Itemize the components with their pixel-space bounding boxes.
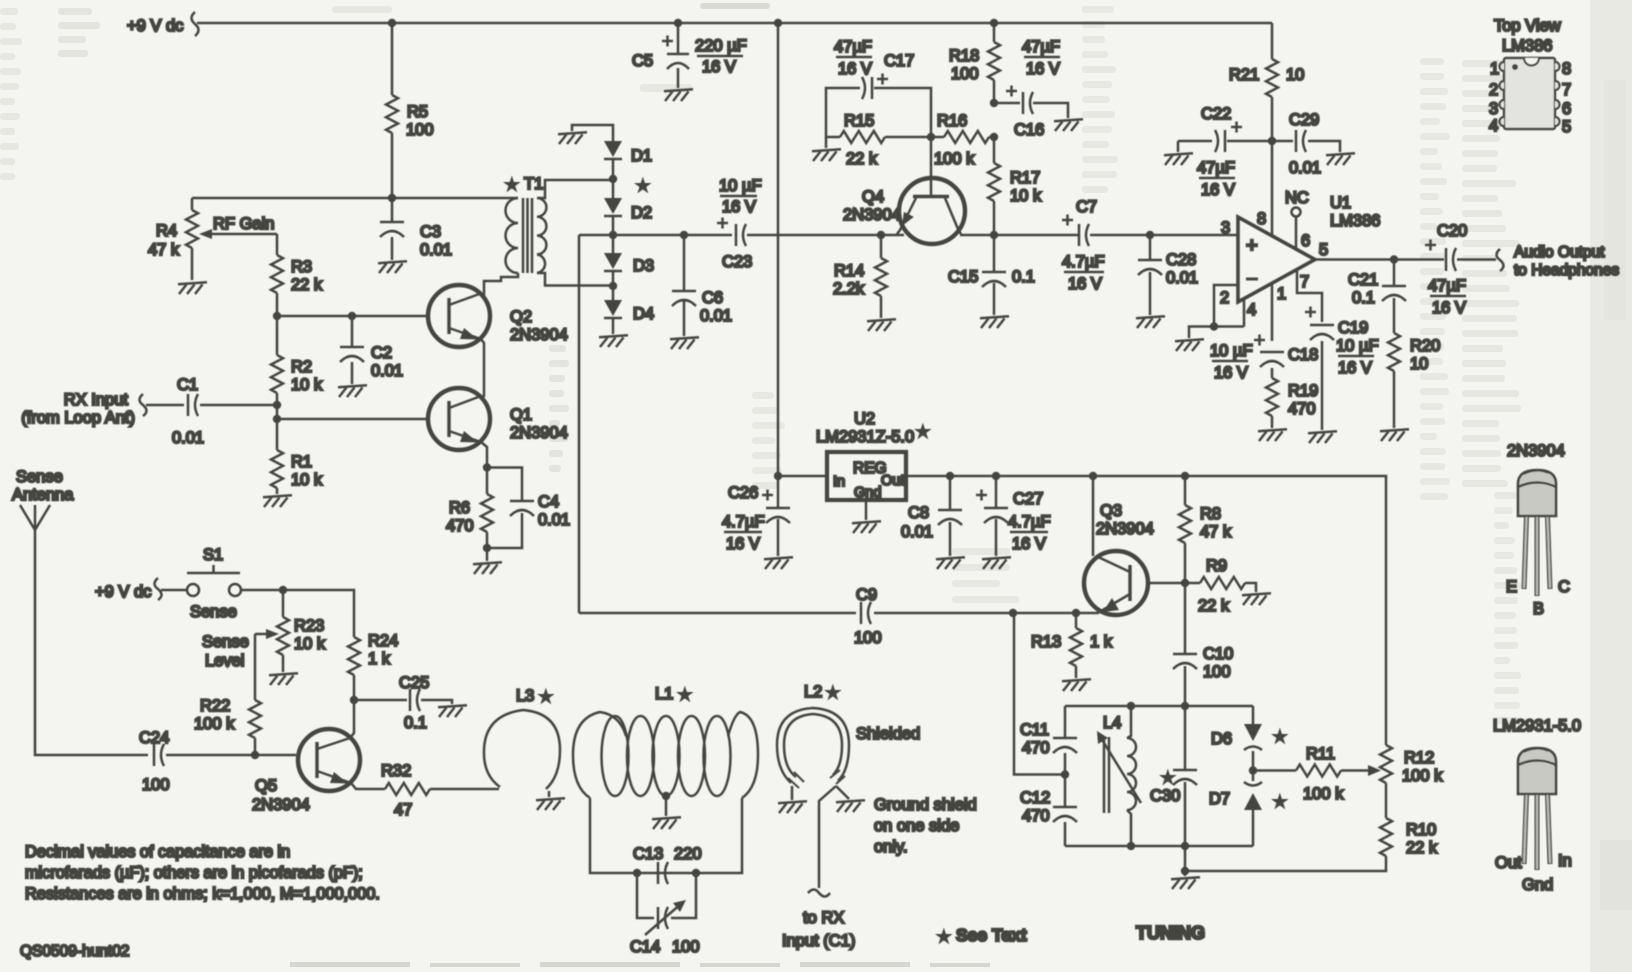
svg-text:0.01: 0.01 <box>538 511 570 529</box>
svg-text:D4: D4 <box>633 305 654 323</box>
ground under regulator <box>852 500 881 533</box>
svg-text:1: 1 <box>1277 285 1286 303</box>
capacitor C18 10uF 16V <box>1210 335 1318 383</box>
pin 2 and 4 ground loop <box>1189 285 1256 338</box>
diode D3 <box>604 235 654 286</box>
bottom scan band <box>290 962 990 967</box>
svg-text:C19: C19 <box>1338 319 1368 337</box>
svg-text:C27: C27 <box>1013 490 1043 508</box>
wire L1 ends down to C13 <box>590 798 742 873</box>
svg-text:only.: only. <box>874 838 908 856</box>
svg-text:D2: D2 <box>631 204 652 222</box>
pin 1 wire <box>1271 284 1274 341</box>
svg-text:100: 100 <box>1203 663 1231 681</box>
svg-text:C: C <box>1558 578 1570 596</box>
svg-text:1 k: 1 k <box>1090 633 1113 651</box>
svg-text:R11: R11 <box>1306 745 1335 763</box>
svg-text:R32: R32 <box>381 762 411 780</box>
svg-text:2N3904: 2N3904 <box>843 206 901 224</box>
svg-text:16 V: 16 V <box>1338 359 1372 377</box>
resistor R22 100k <box>194 697 261 755</box>
svg-text:47µF: 47µF <box>1022 38 1060 56</box>
svg-text:0.01: 0.01 <box>700 307 732 325</box>
wire Q2 base node line <box>277 315 428 318</box>
ground under L3 <box>536 791 565 810</box>
capacitor C4 0.01 <box>487 468 570 549</box>
svg-text:8: 8 <box>1257 210 1266 228</box>
ground tuning network <box>1171 877 1200 889</box>
svg-text:3: 3 <box>1221 219 1230 237</box>
svg-text:16 V: 16 V <box>722 198 756 216</box>
svg-text:47µF: 47µF <box>834 38 872 56</box>
svg-text:16 V: 16 V <box>1026 60 1060 78</box>
svg-text:R4: R4 <box>156 222 177 240</box>
svg-text:C1: C1 <box>177 376 198 394</box>
resistor R6 470 <box>446 468 493 549</box>
ground under C6 <box>670 337 699 349</box>
svg-text:C29: C29 <box>1289 111 1319 129</box>
svg-text:C7: C7 <box>1076 198 1097 216</box>
node junction R18 C16 <box>990 99 998 107</box>
svg-text:★: ★ <box>1162 770 1174 785</box>
svg-text:R9: R9 <box>1206 557 1227 575</box>
node junction R13 tap <box>1072 609 1080 617</box>
note see text <box>938 925 1027 945</box>
capacitor C16 47uF 16V <box>994 38 1068 139</box>
svg-text:4.7µF: 4.7µF <box>1008 513 1051 531</box>
resistor R2 10k <box>271 316 323 405</box>
svg-text:16 V: 16 V <box>702 58 736 76</box>
svg-text:100 k: 100 k <box>194 715 235 733</box>
transformer T1 <box>505 175 546 273</box>
node junction S1 R23 <box>279 586 287 594</box>
svg-text:C14: C14 <box>630 938 660 956</box>
svg-text:Antenna: Antenna <box>12 486 74 504</box>
svg-text:C22: C22 <box>1201 105 1231 123</box>
ground under C26 <box>764 557 793 569</box>
svg-text:C4: C4 <box>538 493 559 511</box>
node junction rail R8 <box>1181 472 1189 480</box>
node junction R22 C24 Q5 base <box>251 751 259 759</box>
svg-text:7: 7 <box>1300 273 1309 291</box>
node junction C2 tap <box>348 312 356 320</box>
wire tank bottom line <box>1065 845 1253 848</box>
capacitor C22 47uF 16V <box>1178 105 1272 199</box>
svg-text:Ground shield: Ground shield <box>874 796 977 814</box>
capacitor C21 0.1 <box>1348 260 1406 334</box>
capacitor C1 0.01 <box>146 376 277 447</box>
svg-text:★: ★ <box>827 685 839 700</box>
node junction R24 C25 Q5 collector <box>350 696 358 704</box>
svg-text:4: 4 <box>1247 301 1256 319</box>
transistor Q1 2N3904 <box>428 388 568 450</box>
svg-text:C12: C12 <box>1020 789 1050 807</box>
svg-text:LM2931Z-5.0: LM2931Z-5.0 <box>816 428 914 446</box>
svg-text:22 k: 22 k <box>291 276 323 294</box>
svg-text:R15: R15 <box>844 112 874 130</box>
svg-text:0.01: 0.01 <box>1289 159 1321 177</box>
svg-text:10 k: 10 k <box>294 635 326 653</box>
svg-text:220: 220 <box>674 845 702 863</box>
potentiometer R23 10k Sense Level <box>202 590 326 700</box>
resistor R24 1k <box>348 632 398 700</box>
svg-text:470: 470 <box>1022 807 1050 825</box>
svg-text:C9: C9 <box>856 586 877 604</box>
svg-text:Q4: Q4 <box>862 188 884 206</box>
svg-text:Resistances are in ohms; k=1,0: Resistances are in ohms; k=1,000, M=1,00… <box>25 885 380 903</box>
ground under C27 <box>982 557 1011 569</box>
svg-text:R17: R17 <box>1010 169 1040 187</box>
svg-text:C3: C3 <box>420 223 441 241</box>
svg-text:microfarads (µF); others are i: microfarads (µF); others are in picofara… <box>25 864 363 882</box>
node junction C13 left <box>633 869 641 877</box>
ground under R1 <box>263 495 292 507</box>
node junction C1-R2-R1 <box>273 401 281 409</box>
svg-text:R18: R18 <box>949 47 979 65</box>
diode D2 <box>604 179 652 235</box>
svg-text:C25: C25 <box>399 674 429 692</box>
svg-text:2N3904: 2N3904 <box>252 796 310 814</box>
capacitor C15 0.1 <box>948 235 1035 315</box>
svg-text:0.01: 0.01 <box>901 523 933 541</box>
resistor R21 10 <box>1229 23 1304 141</box>
svg-text:Top View: Top View <box>1494 17 1561 35</box>
svg-text:R2: R2 <box>291 358 312 376</box>
wire T1 primary bottom to Q2 collector <box>484 273 518 299</box>
node junction C6 tap <box>680 231 688 239</box>
ground under D4 <box>599 335 628 347</box>
svg-text:470: 470 <box>446 517 474 535</box>
pin 7 wire to C19 <box>1297 270 1322 322</box>
svg-text:0.1: 0.1 <box>1012 268 1035 286</box>
svg-text:47µF: 47µF <box>1428 277 1466 295</box>
svg-text:★: ★ <box>637 178 649 193</box>
regulator U2 LM2931Z-5.0 <box>778 410 929 501</box>
capacitor C26 4.7uF 16V <box>722 476 790 556</box>
capacitor C20 47uF 16V <box>1425 222 1467 317</box>
svg-text:0.1: 0.1 <box>404 714 427 732</box>
transistor Q4 2N3904 <box>843 137 965 244</box>
wire product detector line C9 <box>579 612 1099 615</box>
svg-text:100: 100 <box>142 776 170 794</box>
svg-text:See Text: See Text <box>956 925 1027 945</box>
svg-text:8: 8 <box>1562 60 1571 78</box>
svg-text:10 µF: 10 µF <box>1210 342 1253 360</box>
node junction L4 bottom <box>1127 842 1135 850</box>
node junction C10 C30 <box>1181 702 1189 710</box>
svg-text:6: 6 <box>1301 232 1310 250</box>
node junction R16 R17 <box>990 133 998 141</box>
node junction C28 tap <box>1146 231 1154 239</box>
svg-text:RF Gain: RF Gain <box>213 215 274 233</box>
svg-text:5: 5 <box>1562 118 1571 136</box>
svg-text:10 k: 10 k <box>291 376 323 394</box>
svg-text:B: B <box>1533 600 1544 618</box>
svg-text:Audio Output: Audio Output <box>1514 244 1605 261</box>
wire Q5 emitter to R32 <box>351 783 385 789</box>
svg-text:C23: C23 <box>722 253 752 271</box>
wire regulated 5V rail <box>906 476 1386 745</box>
ground right of R9 <box>1242 593 1271 605</box>
node junction C27 <box>992 472 1000 480</box>
ground under C2 <box>338 385 367 397</box>
svg-text:2.2k: 2.2k <box>833 280 865 298</box>
svg-text:Q3: Q3 <box>1100 502 1122 520</box>
capacitor C10 100 <box>1173 583 1233 706</box>
svg-text:(from Loop Ant): (from Loop Ant) <box>21 409 135 427</box>
svg-text:Level: Level <box>205 652 244 670</box>
ground L2 left end <box>778 786 807 813</box>
wire Q3 base to R8 R9 node <box>1148 582 1185 585</box>
package 2N3904 TO-92 <box>1506 442 1570 618</box>
svg-text:3: 3 <box>1489 100 1498 118</box>
resistor R20 10 <box>1388 333 1440 428</box>
svg-text:C16: C16 <box>1014 121 1044 139</box>
node junction C30 bottom <box>1181 842 1189 850</box>
node junction R3-R2-base <box>273 312 281 320</box>
ground under C28 <box>1136 316 1165 328</box>
svg-text:C5: C5 <box>632 52 653 70</box>
resistor R13 1k <box>1031 613 1113 678</box>
svg-text:R1: R1 <box>291 453 312 471</box>
resistor R18 100 <box>949 23 1000 103</box>
svg-text:to Headphones: to Headphones <box>1514 262 1619 279</box>
node junction R21 C22 C29 pin8 <box>1268 137 1276 145</box>
svg-text:D3: D3 <box>633 257 654 275</box>
svg-text:16 V: 16 V <box>1012 535 1046 553</box>
node S1 +9V label <box>95 578 162 601</box>
svg-text:D6: D6 <box>1211 730 1232 748</box>
svg-text:0.01: 0.01 <box>1166 269 1198 287</box>
diode D6 varactor <box>1211 706 1286 770</box>
potentiometer R4 47k RF Gain <box>148 198 277 280</box>
ground under R6 <box>473 548 502 574</box>
node Audio Output label <box>1497 244 1620 279</box>
svg-text:C15: C15 <box>948 268 978 286</box>
svg-text:470: 470 <box>1288 400 1316 418</box>
svg-text:C28: C28 <box>1166 251 1196 269</box>
svg-text:5: 5 <box>1319 241 1328 259</box>
svg-text:10: 10 <box>1286 66 1304 84</box>
svg-text:R14: R14 <box>834 262 864 280</box>
svg-text:10 µF: 10 µF <box>719 177 762 195</box>
node junction output C21 <box>1390 255 1398 263</box>
ground under C5 <box>664 89 693 101</box>
node junction D6 D7 R11 <box>1249 766 1257 774</box>
svg-text:R22: R22 <box>200 697 230 715</box>
wire tank feed from product detector <box>1014 613 1065 775</box>
resistor R1 10k <box>271 419 323 494</box>
wire Q2 emitter to Q1 collector <box>481 339 484 398</box>
svg-text:Q1: Q1 <box>510 406 532 424</box>
potentiometer R12 100k <box>1380 745 1443 818</box>
node junction rail-C5 <box>674 19 682 27</box>
capacitor C19 10uF 16V <box>1305 307 1379 431</box>
ground R15 C17 left node <box>812 137 841 161</box>
node junction tank feed tap <box>1009 609 1017 617</box>
svg-text:Shielded: Shielded <box>856 725 920 743</box>
svg-text:D1: D1 <box>631 147 652 165</box>
wire +9V top rail <box>197 22 1272 25</box>
resistor R16 100k <box>931 112 994 168</box>
svg-text:U1: U1 <box>1330 194 1351 212</box>
svg-text:RX Input: RX Input <box>64 391 129 409</box>
capacitor C9 100 <box>854 586 882 647</box>
node junction tank ground <box>1181 867 1189 875</box>
svg-text:LM2931-5.0: LM2931-5.0 <box>1493 717 1581 735</box>
capacitor C17 47uF 16V bypass loop <box>826 38 931 137</box>
capacitor C24 100 <box>139 729 296 794</box>
svg-text:C30: C30 <box>1150 787 1180 805</box>
node junction R5-node <box>388 194 396 202</box>
svg-text:E: E <box>1506 578 1517 596</box>
svg-text:C13: C13 <box>633 845 663 863</box>
svg-text:L1: L1 <box>655 685 673 703</box>
svg-text:C24: C24 <box>139 729 169 747</box>
svg-text:2: 2 <box>1220 289 1229 307</box>
svg-text:C2: C2 <box>371 344 392 362</box>
node junction C8 <box>946 472 954 480</box>
svg-text:R13: R13 <box>1031 633 1061 651</box>
capacitor C30 variable <box>1150 706 1197 846</box>
node junction rail-R18 <box>990 19 998 27</box>
svg-text:★: ★ <box>938 929 950 944</box>
resistor R17 10k <box>988 137 1042 235</box>
svg-text:16 V: 16 V <box>838 60 872 78</box>
svg-text:2N3904: 2N3904 <box>510 424 568 442</box>
svg-text:470: 470 <box>1022 739 1050 757</box>
svg-text:Decimal values of capacitance: Decimal values of capacitance are in <box>25 843 290 861</box>
svg-text:0.1: 0.1 <box>1352 289 1375 307</box>
svg-text:100 k: 100 k <box>1402 767 1443 785</box>
svg-text:C18: C18 <box>1288 346 1318 364</box>
resistor R10 22k <box>1185 818 1438 871</box>
svg-text:22 k: 22 k <box>1198 597 1230 615</box>
svg-text:L3: L3 <box>516 687 534 705</box>
capacitor C7 4.7uF 16V <box>1062 198 1105 293</box>
capacitor C3 0.01 <box>380 198 452 260</box>
wire T1 secondary bottom to D3-D4 junction <box>537 273 613 286</box>
svg-text:R21: R21 <box>1229 66 1259 84</box>
wire Q1 emitter to R6 C4 node <box>481 442 487 467</box>
svg-text:Sense: Sense <box>190 603 237 621</box>
note ground shield <box>874 796 977 856</box>
svg-text:R16: R16 <box>937 112 967 130</box>
inductor L4 tuned <box>1097 706 1141 846</box>
transistor Q5 2N3904 <box>252 729 360 814</box>
svg-text:Sense: Sense <box>202 633 249 651</box>
svg-text:0.01: 0.01 <box>172 429 204 447</box>
svg-text:22 k: 22 k <box>846 150 878 168</box>
ground left of C22 <box>1164 141 1193 165</box>
svg-text:C11: C11 <box>1020 721 1049 739</box>
diode D4 <box>604 286 654 334</box>
node junction C13 right <box>692 869 700 877</box>
node junction L1 center tap <box>662 792 670 800</box>
svg-text:C8: C8 <box>908 504 929 522</box>
wire C30 bottom to ground <box>1184 846 1187 876</box>
svg-text:C6: C6 <box>702 289 723 307</box>
node junction Q1 emitter <box>483 463 491 471</box>
svg-text:4.7µF: 4.7µF <box>1062 253 1105 271</box>
capacitor C28 0.01 <box>1138 235 1198 315</box>
svg-text:220 µF: 220 µF <box>695 37 747 55</box>
node junction rail-C26 feed <box>774 19 782 27</box>
svg-text:0.01: 0.01 <box>371 362 403 380</box>
capacitor C8 0.01 <box>901 476 962 556</box>
svg-text:100: 100 <box>951 65 979 83</box>
node junction rail-R5 <box>388 19 396 27</box>
node junction D2-D3 signal takeoff <box>609 231 617 239</box>
diode D1 <box>604 141 652 179</box>
svg-text:10 µF: 10 µF <box>1336 337 1379 355</box>
svg-text:R3: R3 <box>291 258 312 276</box>
svg-text:6: 6 <box>1562 100 1571 118</box>
svg-text:4.7µF: 4.7µF <box>722 513 765 531</box>
svg-text:C17: C17 <box>884 52 914 70</box>
svg-text:D7: D7 <box>1209 790 1230 808</box>
svg-text:2N3904: 2N3904 <box>1096 520 1154 538</box>
node junction L4 top <box>1127 702 1135 710</box>
svg-text:R23: R23 <box>294 617 324 635</box>
svg-text:0.01: 0.01 <box>420 241 452 259</box>
svg-text:16 V: 16 V <box>726 535 760 553</box>
svg-text:Out: Out <box>1495 854 1522 872</box>
wire signal bus from D2-D3 junction to mixer output <box>579 234 1238 237</box>
capacitor C12 470 <box>1020 775 1077 847</box>
wire Q5 collector to R24 node <box>350 700 354 738</box>
node junction Q4 base R15 R16 <box>927 133 935 141</box>
node junction C11 C12 feed <box>1061 770 1069 778</box>
svg-text:Q2: Q2 <box>510 308 532 326</box>
capacitor C2 0.01 <box>340 316 403 384</box>
node +9V dc supply label <box>127 12 199 36</box>
svg-text:16 V: 16 V <box>1432 299 1466 317</box>
resistor R5 100 <box>386 23 434 198</box>
ground under R13 <box>1062 679 1091 691</box>
note capacitance values <box>25 843 380 903</box>
antenna sense <box>12 468 148 755</box>
wire signal takeoff down to product detector line <box>578 235 581 613</box>
node junction Q4 collector C15 <box>990 231 998 239</box>
node junction D1-D2 secondary top <box>609 175 617 183</box>
svg-text:1: 1 <box>1490 60 1499 78</box>
svg-text:7: 7 <box>1562 81 1571 99</box>
svg-text:16 V: 16 V <box>1201 181 1235 199</box>
resistor R19 470 <box>1266 378 1318 428</box>
svg-text:+: + <box>1246 235 1258 257</box>
svg-text:S1: S1 <box>203 546 223 564</box>
svg-text:NC: NC <box>1285 189 1309 207</box>
ground under R19 <box>1258 429 1287 441</box>
svg-text:★: ★ <box>1274 794 1286 809</box>
svg-text:LM386: LM386 <box>1330 212 1380 230</box>
resistor R9 22k <box>1185 557 1256 615</box>
inductor L3 <box>484 687 560 789</box>
svg-text:10 k: 10 k <box>291 471 323 489</box>
svg-text:R20: R20 <box>1410 337 1440 355</box>
svg-text:C26: C26 <box>728 484 758 502</box>
ground right of C29 <box>1326 153 1355 165</box>
svg-text:2N3904: 2N3904 <box>1507 442 1565 460</box>
capacitor C13 220 <box>633 845 702 884</box>
svg-text:L2: L2 <box>804 683 822 701</box>
ground under R14 <box>867 319 896 331</box>
svg-text:Gnd: Gnd <box>1522 876 1553 894</box>
resistor R14 2.2k <box>833 235 887 318</box>
svg-text:10 k: 10 k <box>1010 187 1042 205</box>
node junction Q4 emitter signal <box>877 231 885 239</box>
